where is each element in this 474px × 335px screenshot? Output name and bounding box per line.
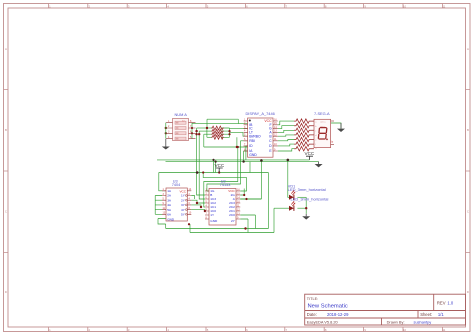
- svg-text:5Y: 5Y: [181, 213, 185, 217]
- svg-text:7404: 7404: [172, 183, 180, 187]
- ground right of display: [337, 123, 345, 132]
- wire runs into U1 pins LT / BI-RBO: [230, 129, 248, 137]
- svg-text:DISPAY_A_7446: DISPAY_A_7446: [246, 111, 275, 116]
- IC U2 74153: [205, 179, 240, 225]
- wire resistor R4 left lead: [207, 136, 212, 138]
- junction U2 A branch: [245, 198, 247, 200]
- wire VCC flag stem over U2: [218, 170, 220, 172]
- svg-text:c: c: [315, 130, 316, 132]
- wire segment D to R10: [278, 144, 294, 146]
- wire U3 input rail: [154, 196, 156, 215]
- wire net SW1 top run to U1 pin IB: [207, 118, 238, 120]
- wire resistor R1 left lead: [197, 127, 212, 129]
- wire net B vertical to lower section: [198, 131, 200, 172]
- title block: [305, 294, 466, 325]
- wire net A vertical to lower section: [196, 128, 198, 173]
- wire NUM A right rail: [191, 123, 193, 139]
- junction bus vertical 1: [212, 159, 214, 161]
- wire U1 pin RBI drop to bus: [246, 146, 248, 160]
- junction net A / R2: [195, 130, 197, 132]
- svg-text:VCC: VCC: [179, 189, 186, 193]
- junction VCC flag / rail: [218, 171, 220, 173]
- ground LEDs: [302, 214, 310, 220]
- svg-text:d: d: [315, 135, 316, 137]
- svg-text:2Y: 2Y: [181, 198, 185, 202]
- svg-text:LED_3mm_horizontal: LED_3mm_horizontal: [291, 197, 329, 202]
- wire U1 pin ID drop: [241, 141, 248, 153]
- wire net D vertical: [206, 128, 208, 137]
- wire U3 3Y jog: [191, 205, 201, 207]
- wire LED cathode rail to ground: [305, 197, 307, 214]
- junction NUM A right rail row3: [191, 132, 193, 134]
- wire segment C to R9: [278, 140, 294, 141]
- wire U3 2Y to U2 1C2: [191, 200, 205, 203]
- junction bottom bus 1: [244, 227, 246, 229]
- junction resistor right rail a: [228, 130, 230, 132]
- svg-text:C: C: [5, 210, 7, 214]
- junction NUM A left rail row2: [165, 127, 167, 129]
- svg-text:11: 11: [442, 5, 445, 9]
- wire segment G to R6: [278, 126, 294, 129]
- svg-text:REV: REV: [437, 301, 446, 306]
- svg-text:B: B: [5, 128, 7, 132]
- junction NUM A right rail row1: [191, 127, 193, 129]
- wire U2 pin 2Y drop to bottom bus 2: [240, 219, 248, 233]
- junction VCC rail / vertical pair: [196, 171, 199, 174]
- svg-text:D: D: [5, 290, 7, 294]
- wire right loop down: [267, 173, 269, 229]
- wire VCC rail above lower chips: [159, 172, 269, 174]
- junction bus / LED feed: [287, 159, 290, 162]
- wire net A into U2 pin B: [197, 173, 205, 196]
- junction net B / R3: [198, 133, 200, 135]
- resistor network R? x4: [211, 126, 224, 139]
- svg-text:2C0: 2C0: [229, 213, 235, 217]
- junction GND bus / U1 GND: [242, 160, 244, 162]
- junction LED cathode rail: [305, 207, 307, 209]
- svg-text:7-SEG-A: 7-SEG-A: [314, 111, 330, 116]
- svg-text:1/1: 1/1: [438, 312, 444, 317]
- svg-text:ID: ID: [249, 144, 253, 148]
- wire LED VD2 anode feed: [274, 207, 289, 209]
- wire net C vertical: [203, 134, 205, 147]
- wire net B into U2 pin 1C3: [199, 173, 205, 200]
- wire resistor network right leads: [222, 128, 230, 137]
- svg-text:Drawn By:: Drawn By:: [387, 319, 405, 324]
- wire net D into U2 pin 1G (routed via right corners): [207, 153, 241, 192]
- wire bus-to-rail vertical 2: [215, 162, 217, 173]
- junction mesh U2 1C1: [200, 206, 202, 208]
- svg-text:A: A: [467, 47, 469, 51]
- svg-text:2018-12-29: 2018-12-29: [327, 312, 349, 317]
- wire net SW1 drop at U1 side: [237, 119, 239, 123]
- wire resistor R3 left lead: [204, 133, 212, 135]
- junction IA drop: [237, 146, 239, 148]
- svg-text:C: C: [467, 210, 469, 214]
- wire bottom bus 2: [190, 208, 274, 232]
- svg-text:Date:: Date:: [307, 312, 317, 317]
- svg-text:GND: GND: [210, 219, 218, 223]
- svg-text:74153: 74153: [220, 183, 231, 187]
- wire U2 pin 2G jog: [240, 189, 244, 196]
- svg-text:10: 10: [403, 5, 407, 9]
- wire net IA run to U1 pin IA: [204, 146, 248, 148]
- wire U3 input stubs: [155, 196, 162, 215]
- svg-text:g: g: [315, 148, 316, 150]
- IC U? DISPAY_A_7446: [244, 111, 278, 157]
- wire segment A to R7: [278, 130, 294, 132]
- wire bus drop to VCC rail: [249, 162, 251, 173]
- wire segment E to R11: [278, 149, 294, 151]
- wire VCC rail branch to U2 VCC pin: [203, 173, 246, 192]
- junction bus vertical 2: [215, 161, 217, 163]
- junction NUM A left rail row3: [165, 132, 167, 134]
- junction VCC rail branch: [202, 171, 204, 173]
- svg-text:NUM A: NUM A: [175, 112, 188, 117]
- svg-text:Sheet:: Sheet:: [420, 312, 432, 317]
- junction resistor right rail b: [228, 133, 230, 135]
- wire LED VD1 cathode run: [297, 196, 306, 198]
- svg-text:VCC: VCC: [215, 163, 225, 168]
- junction net A / R3: [195, 133, 197, 135]
- junction IA net: [236, 146, 238, 148]
- wire bottom bus 1: [166, 224, 269, 229]
- svg-text:B: B: [467, 128, 469, 132]
- wire U2 pin 2C0 drop to bottom bus 1: [240, 215, 255, 229]
- junction mesh U2 1C0: [204, 210, 206, 212]
- wire run to U2 pin A: [240, 198, 261, 200]
- wire net C into U2 pin 1C1 (routed via right corners): [204, 147, 238, 207]
- wire bus drop to LED VD1 anode: [288, 160, 289, 197]
- wire GND bus under 7446: [166, 161, 319, 163]
- wire VCC rail drop to U3 pin 1A: [159, 173, 166, 191]
- junction bus / net to U2 A: [260, 159, 263, 162]
- IC U3 7404: [162, 179, 192, 221]
- svg-text:2Y: 2Y: [231, 219, 235, 223]
- svg-text:11: 11: [442, 328, 445, 332]
- 7-SEG-A display: [314, 111, 334, 150]
- svg-text:A: A: [5, 47, 7, 51]
- wire drop to IA net: [236, 137, 238, 147]
- wire segment F to R5: [278, 121, 294, 125]
- wire display common pin to ground: [331, 123, 341, 129]
- svg-text:TITLE:: TITLE:: [307, 297, 318, 301]
- wire U2 pin A stub: [240, 198, 261, 200]
- wire resistor network right rail: [229, 128, 231, 137]
- ground mid (below display VCC): [315, 162, 323, 168]
- junction bottom bus left: [188, 223, 190, 225]
- ground near NUM A: [162, 139, 170, 150]
- wire resistor R2 left lead: [199, 130, 212, 132]
- svg-text:1Y: 1Y: [210, 213, 214, 217]
- wire VCC bus under 7446: [157, 159, 310, 161]
- segments of digit 8: [318, 128, 327, 139]
- wire bus-to-rail vertical 1: [213, 160, 215, 173]
- svg-text:EasyEDA V5.8.20: EasyEDA V5.8.20: [307, 319, 339, 324]
- wire bus drop to U2 pin A: [260, 160, 262, 199]
- svg-text:VCC: VCC: [305, 151, 315, 156]
- svg-text:com.a: com.a: [320, 122, 326, 124]
- VCC flag above 74153: [215, 163, 225, 173]
- junction mesh U2 1C2: [196, 202, 198, 204]
- wire U3 GND pin loop to bottom bus: [158, 219, 166, 225]
- svg-text:1.0: 1.0: [447, 301, 453, 306]
- junction U2 2G: [243, 194, 245, 196]
- junction net SW1 / R1: [206, 127, 208, 129]
- svg-text:RBI: RBI: [249, 139, 255, 143]
- svg-text:D: D: [467, 290, 469, 294]
- wire segment B to R8: [278, 135, 294, 136]
- LED VD2: [289, 197, 328, 211]
- svg-text:10: 10: [403, 328, 407, 332]
- wire net SW2 run to U1 pin IC: [192, 123, 248, 125]
- svg-text:New Schematic: New Schematic: [308, 303, 348, 309]
- LED VD1: [288, 184, 326, 200]
- wire U3 1Y jog: [191, 196, 194, 200]
- svg-text:sushantpy: sushantpy: [414, 319, 432, 324]
- component NUM A (DIP switch): [166, 112, 196, 141]
- svg-text:3Y: 3Y: [181, 203, 185, 207]
- svg-text:VCC: VCC: [228, 189, 235, 193]
- svg-text:VCC: VCC: [264, 119, 272, 123]
- wire LED VD2 cathode run: [297, 207, 306, 209]
- wire U3 4Y to U2 1C0: [191, 210, 205, 211]
- resistor bundle x7 (segment resistors): [294, 119, 314, 151]
- svg-text:1Y: 1Y: [181, 194, 185, 198]
- svg-text:4Y: 4Y: [181, 208, 185, 212]
- wire U1 GND pin drop to GND bus: [244, 151, 248, 162]
- svg-text:GND: GND: [167, 217, 175, 221]
- svg-text:GND: GND: [249, 153, 257, 157]
- VCC flag below display: [305, 151, 315, 160]
- wire net SW1 drop to resistor row 1: [206, 119, 208, 128]
- svg-text:BI/RBO: BI/RBO: [249, 134, 261, 138]
